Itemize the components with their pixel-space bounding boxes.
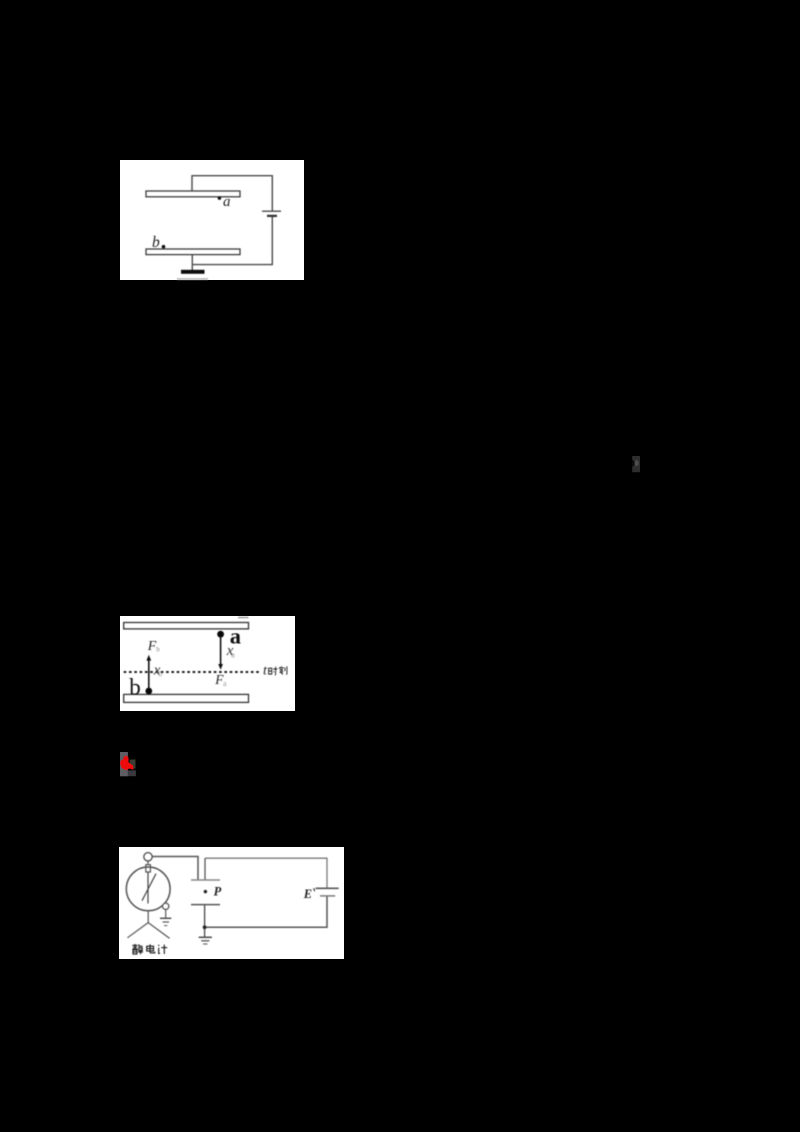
- bottom plate: [146, 249, 240, 255]
- dashed line t: [124, 671, 261, 673]
- wire capacitor top plate to battery: [205, 858, 327, 888]
- glyph 时: [269, 667, 278, 675]
- label 静: [132, 944, 143, 954]
- node b dot: [162, 245, 166, 249]
- gray tick top right: [238, 617, 249, 619]
- wire bottom plate to ground: [191, 255, 193, 270]
- bottom plate: [124, 694, 249, 702]
- svg-text:b: b: [156, 645, 160, 653]
- node P dot: [204, 890, 207, 893]
- glyph 刻: [279, 666, 287, 674]
- electrometer needle: [147, 872, 149, 904]
- wire from battery negative to bottom plate: [192, 216, 272, 264]
- capacitor P bottom plate: [191, 904, 220, 906]
- svg-text:b: b: [152, 234, 160, 251]
- electrometer case knob: [163, 903, 169, 909]
- charge a dot: [217, 631, 224, 638]
- svg-text:P: P: [214, 884, 222, 898]
- charge b dot: [145, 688, 152, 695]
- electrometer stand legs: [127, 911, 169, 939]
- svg-text:a: a: [223, 194, 231, 210]
- battery E' short plate: [320, 895, 335, 897]
- force Fa arrow on a: [220, 637, 222, 666]
- electrometer stem: [147, 861, 149, 865]
- svg-text:b: b: [158, 669, 162, 678]
- battery E' long plate: [316, 887, 339, 889]
- ground symbol: [181, 270, 205, 274]
- top plate: [124, 623, 249, 629]
- svg-text:a: a: [231, 650, 235, 659]
- battery long plate: [262, 210, 281, 212]
- force Fb arrow on b: [148, 660, 150, 691]
- junction dot: [203, 925, 207, 929]
- wire from top plate to battery positive: [192, 176, 272, 211]
- case ground: [165, 910, 167, 919]
- wire battery to bottom node: [205, 896, 327, 927]
- electrometer body circle: [126, 867, 170, 911]
- svg-text:b: b: [129, 675, 141, 700]
- svg-text:E: E: [303, 887, 312, 901]
- wire electrometer knob to capacitor top plate: [152, 857, 198, 881]
- top plate: [146, 191, 240, 197]
- svg-text:t: t: [263, 664, 268, 679]
- node a dot: [218, 196, 222, 200]
- wire bottom plate to ground: [204, 905, 206, 937]
- electrometer knob: [144, 853, 152, 861]
- main ground symbol: [199, 936, 212, 938]
- svg-text:a: a: [223, 679, 227, 688]
- label 电: [147, 944, 155, 953]
- capacitor P top plate: [191, 879, 220, 881]
- label 计: [158, 945, 167, 954]
- battery short plate: [267, 215, 277, 217]
